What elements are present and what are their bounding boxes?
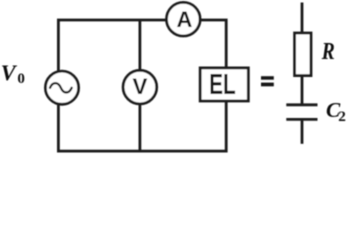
svg-text:A: A [177,7,193,32]
svg-text:2: 2 [338,108,346,125]
svg-text:0: 0 [17,71,25,87]
svg-text:V: V [1,60,18,85]
svg-text:EL: EL [209,69,236,101]
svg-text:R: R [321,37,335,65]
svg-text:V: V [132,74,147,99]
